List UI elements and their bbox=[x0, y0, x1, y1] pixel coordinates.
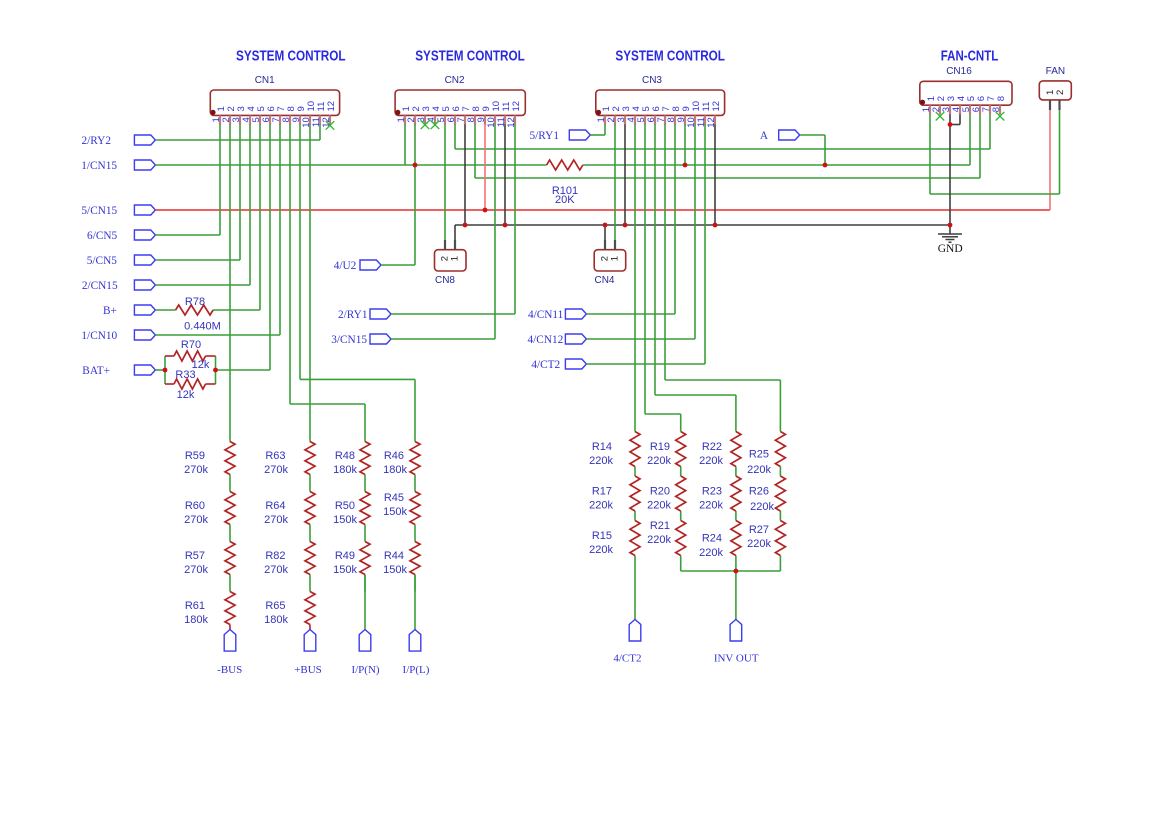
resistor R21 bbox=[676, 521, 686, 556]
label R23 value 220k bbox=[699, 486, 723, 512]
svg-text:5/CN15: 5/CN15 bbox=[81, 205, 117, 217]
svg-text:180k: 180k bbox=[184, 614, 208, 626]
wire CN2 pin5 vertical to CN8 bbox=[444, 124, 446, 240]
wire jog to R22 column bbox=[655, 394, 736, 396]
port 6/CN5 bbox=[87, 230, 155, 242]
port 2/RY2 bbox=[81, 135, 155, 147]
svg-text:1/CN10: 1/CN10 bbox=[81, 330, 117, 342]
wire net 5/CN15 red horizontal bbox=[155, 209, 1050, 211]
label R60 value 270k bbox=[184, 500, 208, 526]
svg-text:R20: R20 bbox=[650, 486, 670, 498]
wire CN16 pin4 vertical bbox=[959, 114, 961, 124]
svg-text:1: 1 bbox=[610, 256, 621, 261]
wire CN16 pin3 vertical to ground bbox=[949, 114, 951, 233]
svg-text:R14: R14 bbox=[592, 441, 612, 453]
resistor R25 bbox=[775, 432, 785, 467]
svg-text:220k: 220k bbox=[589, 544, 613, 556]
resistor R48 bbox=[360, 442, 370, 475]
wire CN3 pin1 vertical bbox=[604, 124, 606, 135]
resistor R14 bbox=[630, 432, 640, 467]
wire R19 column top bbox=[680, 414, 682, 432]
svg-text:270k: 270k bbox=[264, 514, 288, 526]
no-connect CN2 pin3 bbox=[421, 121, 430, 130]
wire net B+ lead left bbox=[155, 309, 175, 311]
svg-text:CN16: CN16 bbox=[946, 66, 972, 77]
resistor R23 bbox=[731, 476, 741, 511]
svg-text:I/P(L): I/P(L) bbox=[403, 664, 430, 676]
wire I/P(N) column top bbox=[364, 404, 366, 442]
svg-text:220k: 220k bbox=[747, 464, 771, 476]
no-connect CN16 pin2 bbox=[936, 112, 945, 121]
wire R33 lead left bbox=[165, 383, 174, 385]
svg-text:R49: R49 bbox=[335, 550, 355, 562]
svg-text:220k: 220k bbox=[647, 455, 671, 467]
port -BUS bbox=[217, 630, 242, 677]
svg-text:270k: 270k bbox=[184, 464, 208, 476]
wire FAN pin2 vertical bbox=[1059, 110, 1061, 194]
resistor R49 bbox=[360, 542, 370, 575]
label R19 value 220k bbox=[647, 441, 671, 467]
svg-text:220k: 220k bbox=[699, 455, 723, 467]
port 3/CN15 bbox=[331, 334, 391, 346]
svg-text:220k: 220k bbox=[647, 500, 671, 512]
label R25 value 220k bbox=[747, 449, 771, 477]
junction CN16.3 on GND rail bbox=[948, 223, 953, 228]
svg-text:R25: R25 bbox=[749, 449, 769, 461]
connector CN8 bbox=[435, 240, 467, 286]
wire column x=310 gap1 bbox=[309, 475, 311, 492]
svg-text:INV OUT: INV OUT bbox=[714, 653, 759, 665]
svg-text:220k: 220k bbox=[747, 538, 771, 550]
wire CN2 pin8 vertical bbox=[474, 124, 476, 178]
svg-text:A: A bbox=[760, 130, 769, 142]
svg-text:0.440M: 0.440M bbox=[184, 321, 221, 333]
wire column x=735.9 gap1 bbox=[735, 467, 737, 477]
wire net 3/CN15 horizontal bbox=[391, 338, 495, 340]
port 4/CN11 bbox=[528, 309, 586, 321]
wire jog to R19 column bbox=[645, 413, 681, 415]
svg-text:180k: 180k bbox=[264, 614, 288, 626]
svg-text:CN4: CN4 bbox=[594, 275, 614, 286]
wire net 2/RY2 horizontal bbox=[155, 139, 320, 141]
port +BUS bbox=[294, 630, 322, 677]
wire CN1 pin5 vertical bbox=[259, 124, 261, 310]
connector CN3 bbox=[596, 75, 725, 128]
label R33 value 12k bbox=[175, 369, 195, 401]
resistor R70 bbox=[174, 351, 206, 361]
connector CN16 bbox=[920, 66, 1012, 114]
wire net 4/CN12 horizontal bbox=[586, 338, 695, 340]
svg-text:5/CN5: 5/CN5 bbox=[87, 255, 117, 267]
title FAN-CNTL bbox=[941, 49, 999, 65]
wire net 1/CN15 horizontal left bbox=[155, 164, 546, 166]
resistor R22 bbox=[731, 432, 741, 467]
svg-text:3/CN15: 3/CN15 bbox=[331, 334, 367, 346]
svg-text:220k: 220k bbox=[699, 547, 723, 559]
wire column x=230 gap1 bbox=[229, 475, 231, 492]
resistor R46 bbox=[410, 442, 420, 475]
port 5/CN15 bbox=[81, 205, 155, 217]
port 1/CN10 bbox=[81, 330, 155, 342]
resistor R33 bbox=[174, 379, 206, 389]
wire net 2/RY1 horizontal bbox=[391, 313, 515, 315]
no-connect CN2 pin4 bbox=[431, 121, 440, 130]
svg-text:270k: 270k bbox=[264, 464, 288, 476]
svg-text:GND: GND bbox=[938, 243, 963, 255]
resistor R26 bbox=[775, 476, 785, 511]
wire column x=415 gap1 bbox=[414, 475, 416, 492]
wire net FAN2 y194 horizontal bbox=[930, 193, 1060, 195]
wire CN16 pin1 vertical bbox=[929, 114, 931, 194]
svg-text:180k: 180k bbox=[383, 464, 407, 476]
label R26 value 220k bbox=[749, 486, 775, 514]
label R57 value 270k bbox=[184, 550, 208, 576]
junction BAT+ left bbox=[163, 368, 168, 373]
wire net 5/CN5 horizontal bbox=[155, 259, 240, 261]
wire column x=680.7 gap1 bbox=[680, 467, 682, 477]
port 1/CN15 bbox=[81, 160, 155, 172]
junction CN3.9 on 1/CN15 bbox=[683, 163, 688, 168]
label R44 value 150k bbox=[383, 550, 407, 576]
svg-text:R57: R57 bbox=[185, 550, 205, 562]
svg-text:R82: R82 bbox=[265, 550, 285, 562]
resistor R101 bbox=[547, 160, 583, 170]
svg-text:R15: R15 bbox=[592, 530, 612, 542]
wire CN2 pin1 vertical bbox=[404, 124, 406, 165]
svg-text:R46: R46 bbox=[384, 450, 404, 462]
wire net 2/CN15 horizontal bbox=[155, 284, 250, 286]
resistor R63 bbox=[305, 442, 315, 475]
wire CN2 pin7 vertical bbox=[464, 124, 466, 225]
ground GND bbox=[938, 234, 963, 255]
wire column x=635 gap1 bbox=[634, 467, 636, 477]
junction CN2.7 on GND rail bbox=[463, 223, 468, 228]
port BAT+ bbox=[82, 365, 155, 377]
wire bottom tie horizontal bbox=[681, 570, 781, 572]
svg-text:8: 8 bbox=[991, 107, 1002, 112]
port INV OUT bbox=[714, 619, 759, 664]
port A bbox=[760, 130, 800, 142]
resistor R78 bbox=[176, 305, 214, 315]
wire column x=365 gap1 bbox=[364, 475, 366, 492]
svg-text:R48: R48 bbox=[335, 450, 355, 462]
resistor R82 bbox=[305, 542, 315, 575]
wire I/P(N) column bottom bbox=[364, 575, 366, 630]
junction BAT+ right bbox=[213, 368, 218, 373]
wire R65 lead to port bbox=[309, 625, 311, 630]
wire CN1 pin11 vertical bbox=[319, 124, 321, 140]
wire CN3 pin11 vertical bbox=[704, 124, 706, 364]
wire CN2 pin10 vertical bbox=[494, 124, 496, 339]
wire R61 lead to port bbox=[229, 625, 231, 630]
wire column x=635 gap2 bbox=[634, 511, 636, 521]
svg-text:R78: R78 bbox=[185, 296, 205, 308]
wire CN1 pin9 vertical bbox=[299, 124, 301, 379]
wire column x=415 gap3 bbox=[414, 575, 416, 592]
svg-text:2/RY2: 2/RY2 bbox=[81, 135, 111, 147]
resistor R60 bbox=[225, 492, 235, 525]
svg-text:FAN-CNTL: FAN-CNTL bbox=[941, 49, 999, 65]
svg-text:5/RY1: 5/RY1 bbox=[529, 130, 559, 142]
wire net 4/CT2 horizontal bbox=[586, 363, 705, 365]
wire FAN pin1 vertical bbox=[1049, 110, 1051, 210]
wire CN3 pin2 vertical to CN4 bbox=[614, 124, 616, 240]
wire CN3 pin3 vertical bbox=[624, 124, 626, 225]
junction CN16.4 tie bbox=[948, 122, 953, 127]
junction A on 1/CN15 bbox=[823, 163, 828, 168]
no-connect CN1 pin12 bbox=[326, 121, 335, 130]
wire I/P(L) column top bbox=[414, 379, 416, 441]
wire column x=780.4 gap1 bbox=[779, 467, 781, 477]
label R27 value 220k bbox=[747, 524, 771, 550]
svg-text:2/CN15: 2/CN15 bbox=[82, 280, 118, 292]
wire CN2 pin11 vertical bbox=[504, 124, 506, 225]
wire R15 to port 4/CT2 bbox=[634, 556, 636, 620]
wire CN1 pin8 vertical bbox=[289, 124, 291, 404]
junction CN2.11 on GND rail bbox=[503, 223, 508, 228]
resistor R27 bbox=[775, 521, 785, 556]
label R48 value 180k bbox=[333, 450, 357, 476]
svg-text:R63: R63 bbox=[265, 450, 285, 462]
svg-text:SYSTEM CONTROL: SYSTEM CONTROL bbox=[236, 49, 346, 65]
svg-text:270k: 270k bbox=[184, 564, 208, 576]
wire net 4/CN11 horizontal bbox=[586, 313, 675, 315]
resistor R15 bbox=[630, 521, 640, 556]
svg-text:220k: 220k bbox=[589, 455, 613, 467]
wire CN16 pin5 vertical bbox=[969, 114, 971, 165]
resistor R64 bbox=[305, 492, 315, 525]
label R70 value 12k bbox=[181, 339, 210, 371]
wire column x=230 gap3 bbox=[229, 575, 231, 592]
svg-text:220k: 220k bbox=[589, 500, 613, 512]
svg-text:2/RY1: 2/RY1 bbox=[338, 309, 368, 321]
wire CN1 pin7 vertical bbox=[279, 124, 281, 335]
label R64 value 270k bbox=[264, 500, 288, 526]
wire BAT+ parallel right vertical bbox=[215, 356, 217, 384]
wire CN2 pin9 vertical bbox=[484, 124, 486, 210]
label R61 value 180k bbox=[184, 600, 208, 626]
svg-text:FAN: FAN bbox=[1046, 66, 1065, 77]
wire column x=365 gap2 bbox=[364, 525, 366, 542]
wire CN3 pin5 vertical bbox=[644, 124, 646, 414]
wire R70 lead left bbox=[165, 355, 174, 357]
title SYSTEM CONTROL (CN3) bbox=[615, 49, 725, 65]
label R45 value 150k bbox=[383, 492, 407, 518]
svg-text:R23: R23 bbox=[702, 486, 722, 498]
label R101 value 20K bbox=[552, 185, 578, 206]
wire CN1 pin10 vertical to R63 bbox=[309, 124, 311, 441]
svg-text:4/CT2: 4/CT2 bbox=[531, 359, 560, 371]
wire CN16 pin4 to pin3 horizontal bbox=[950, 124, 960, 126]
wire net 6/CN5 horizontal bbox=[155, 234, 220, 236]
wire CN2 pin6 vertical bbox=[454, 124, 456, 149]
wire CN1 pin1 vertical bbox=[219, 124, 221, 235]
port 4/CT2 bottom bbox=[613, 619, 641, 664]
svg-text:I/P(N): I/P(N) bbox=[351, 664, 379, 676]
wire jog to R25 column bbox=[665, 379, 780, 381]
wire net CN2.8 y178 horizontal bbox=[475, 177, 980, 179]
wire net A horizontal bbox=[800, 134, 825, 136]
label R14 value 220k bbox=[589, 441, 613, 467]
wire net 5/RY1 horizontal bbox=[590, 134, 605, 136]
svg-text:-BUS: -BUS bbox=[217, 664, 242, 676]
wire column x=310 gap2 bbox=[309, 525, 311, 542]
port 2/RY1 bbox=[338, 309, 391, 321]
svg-text:220k: 220k bbox=[647, 534, 671, 546]
resistor R45 bbox=[410, 492, 420, 525]
wire column x=230 gap2 bbox=[229, 525, 231, 542]
label R46 value 180k bbox=[383, 450, 407, 476]
wire R27 column bottom bbox=[779, 556, 781, 572]
wire net B+ right of R78 bbox=[213, 309, 260, 311]
svg-text:SYSTEM CONTROL: SYSTEM CONTROL bbox=[415, 49, 525, 65]
connector CN2 bbox=[395, 75, 525, 128]
svg-text:R65: R65 bbox=[265, 600, 285, 612]
wire CN3 pin8 vertical bbox=[674, 124, 676, 314]
svg-text:R27: R27 bbox=[749, 524, 769, 536]
svg-text:2: 2 bbox=[1055, 90, 1066, 95]
svg-text:1: 1 bbox=[450, 256, 461, 261]
wire CN1 pin6 vertical bbox=[269, 124, 271, 370]
connector CN4 bbox=[594, 240, 626, 286]
junction CN4.2 on GND rail bbox=[603, 223, 608, 228]
label R24 value 220k bbox=[699, 533, 723, 560]
svg-text:20K: 20K bbox=[555, 194, 575, 206]
svg-text:12k: 12k bbox=[177, 389, 195, 401]
resistor R24 bbox=[731, 521, 741, 556]
svg-text:R45: R45 bbox=[384, 492, 404, 504]
wire CN4 pin2 vertical bbox=[604, 225, 606, 240]
svg-text:12: 12 bbox=[326, 101, 337, 112]
wire net BAT+ lead left bbox=[155, 369, 165, 371]
svg-text:+BUS: +BUS bbox=[294, 664, 322, 676]
wire CN3 pin6 vertical bbox=[654, 124, 656, 395]
junction CN3.12 on GND rail bbox=[713, 223, 718, 228]
port 4/CN12 bbox=[528, 334, 587, 346]
wire column x=365 gap3 bbox=[364, 575, 366, 592]
no-connect CN16 pin8 bbox=[996, 112, 1005, 121]
wire net A vertical bbox=[824, 135, 826, 165]
wire CN1 pin4 vertical bbox=[249, 124, 251, 285]
svg-text:B+: B+ bbox=[103, 305, 117, 317]
wire CN16 pin7 vertical bbox=[989, 114, 991, 149]
wire CN3 pin12 vertical bbox=[714, 124, 716, 225]
resistor R17 bbox=[630, 476, 640, 511]
wire jog to I/P(N) column bbox=[290, 403, 365, 405]
wire CN8 pin1 vertical bbox=[454, 225, 456, 240]
svg-text:BAT+: BAT+ bbox=[82, 365, 110, 377]
resistor R59 bbox=[225, 442, 235, 475]
svg-text:R26: R26 bbox=[749, 486, 769, 498]
wire R25 column top bbox=[779, 380, 781, 432]
junction CN3.3 on GND rail bbox=[623, 223, 628, 228]
label R20 value 220k bbox=[647, 486, 671, 512]
label R22 value 220k bbox=[699, 441, 723, 467]
junction CN2.2 on 1/CN15 bbox=[413, 163, 418, 168]
svg-text:CN8: CN8 bbox=[435, 275, 455, 286]
resistor R44 bbox=[410, 542, 420, 575]
junction CN2.9 on 5/CN15 bbox=[483, 208, 488, 213]
svg-text:R19: R19 bbox=[650, 441, 670, 453]
port 4/U2 bbox=[334, 260, 381, 272]
svg-text:R21: R21 bbox=[650, 520, 670, 532]
svg-text:270k: 270k bbox=[184, 514, 208, 526]
svg-text:150k: 150k bbox=[383, 506, 407, 518]
wire CN3 pin7 vertical bbox=[664, 124, 666, 380]
wire R24 to INV OUT bbox=[735, 556, 737, 620]
port 4/CT2 bbox=[531, 359, 586, 371]
port I/P(L) bbox=[403, 630, 430, 677]
wire column x=310 gap3 bbox=[309, 575, 311, 592]
svg-text:R64: R64 bbox=[265, 500, 285, 512]
wire CN2 pin2 vertical bbox=[414, 124, 416, 265]
wire net 1/CN10 horizontal bbox=[155, 334, 280, 336]
port 5/CN5 bbox=[87, 255, 156, 267]
svg-text:SYSTEM CONTROL: SYSTEM CONTROL bbox=[615, 49, 725, 65]
wire net CN2.6 y149 horizontal bbox=[455, 148, 990, 150]
title SYSTEM CONTROL (CN1) bbox=[236, 49, 346, 65]
connector CN1 bbox=[210, 75, 339, 128]
svg-text:R33: R33 bbox=[175, 369, 195, 381]
wire net 1/CN15 horizontal right bbox=[583, 164, 970, 166]
wire CN3 pin9 vertical bbox=[684, 124, 686, 165]
junction INV OUT tie bbox=[734, 569, 739, 574]
label R15 value 220k bbox=[589, 530, 613, 556]
svg-text:12: 12 bbox=[711, 101, 722, 112]
label R78 value 0.440M bbox=[184, 296, 221, 333]
wire BAT+ parallel left vertical bbox=[164, 356, 166, 384]
resistor R20 bbox=[676, 476, 686, 511]
wire column x=780.4 gap2 bbox=[779, 511, 781, 521]
wire R21 column bottom bbox=[680, 556, 682, 572]
svg-text:270k: 270k bbox=[264, 564, 288, 576]
wire CN3 pin10 vertical bbox=[694, 124, 696, 339]
label R63 value 270k bbox=[264, 450, 288, 476]
wire CN1 pin2 vertical to R59 bbox=[229, 124, 231, 441]
wire CN16 pin6 vertical bbox=[979, 114, 981, 178]
port 2/CN15 bbox=[82, 280, 156, 292]
wire column x=680.7 gap2 bbox=[680, 511, 682, 521]
wire CN3 pin4 vertical to R14 bbox=[634, 124, 636, 431]
wire CN1 pin3 vertical bbox=[239, 124, 241, 260]
svg-text:R61: R61 bbox=[185, 600, 205, 612]
svg-text:8: 8 bbox=[996, 96, 1007, 101]
label R65 value 180k bbox=[264, 600, 288, 626]
label R17 value 220k bbox=[589, 486, 613, 512]
wire R33 lead right bbox=[206, 383, 216, 385]
resistor R50 bbox=[360, 492, 370, 525]
wire column x=415 gap2 bbox=[414, 525, 416, 542]
label R49 value 150k bbox=[333, 550, 357, 576]
svg-text:CN2: CN2 bbox=[445, 75, 465, 86]
wire net 4/U2 horizontal bbox=[381, 264, 415, 266]
resistor R65 bbox=[305, 592, 315, 625]
svg-text:180k: 180k bbox=[333, 464, 357, 476]
resistor R61 bbox=[225, 592, 235, 625]
svg-text:4/CT2: 4/CT2 bbox=[613, 653, 641, 665]
svg-text:R24: R24 bbox=[702, 533, 722, 545]
svg-text:150k: 150k bbox=[333, 564, 357, 576]
svg-text:4/CN11: 4/CN11 bbox=[528, 309, 563, 321]
svg-text:4/U2: 4/U2 bbox=[334, 260, 357, 272]
resistor R57 bbox=[225, 542, 235, 575]
svg-text:1/CN15: 1/CN15 bbox=[81, 160, 117, 172]
wire CN2 pin12 vertical bbox=[514, 124, 516, 314]
connector FAN bbox=[1039, 66, 1071, 110]
svg-text:4/CN12: 4/CN12 bbox=[528, 334, 564, 346]
svg-text:150k: 150k bbox=[333, 514, 357, 526]
svg-text:R22: R22 bbox=[702, 441, 722, 453]
